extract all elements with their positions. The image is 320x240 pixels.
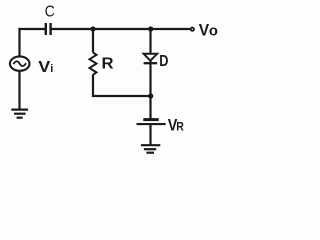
svg-text:R: R [102, 56, 114, 73]
svg-text:o: o [209, 23, 218, 40]
svg-text:C: C [45, 4, 55, 21]
svg-text:i: i [50, 63, 53, 75]
svg-text:D: D [159, 53, 168, 70]
svg-text:V: V [38, 59, 50, 76]
svg-text:V: V [199, 22, 209, 40]
svg-text:R: R [176, 120, 184, 134]
